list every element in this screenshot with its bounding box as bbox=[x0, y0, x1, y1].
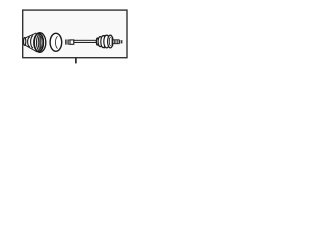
outer boot rib 3 bbox=[104, 35, 110, 48]
inner boot bellows arc 1 bbox=[28, 37, 30, 47]
axle shaft bbox=[74, 40, 96, 42]
inner boot small end clamp ring bbox=[24, 38, 26, 46]
stub tip groove bbox=[120, 40, 122, 43]
stub tip bbox=[119, 40, 122, 43]
background bbox=[0, 0, 150, 73]
callout tick below box bbox=[75, 57, 77, 63]
stub spline lines bbox=[115, 40, 118, 44]
outer boot rib 2 bbox=[101, 36, 106, 48]
outer boot top profile line bbox=[98, 35, 106, 38]
outer boot small clamp ring bbox=[96, 38, 98, 45]
outer joint body inner detail arc bbox=[109, 37, 110, 46]
joint housing inner left arc bbox=[56, 36, 58, 48]
inner boot bellows arc 2 bbox=[31, 36, 34, 48]
joint housing outer ellipse bbox=[50, 33, 62, 51]
spline block A white lines bbox=[65, 40, 67, 45]
clamp block B bbox=[70, 40, 74, 44]
inner joint boot large end nested ellipses bbox=[34, 33, 46, 53]
outer boot rib 1 bbox=[98, 37, 102, 47]
outer boot bottom profile line bbox=[98, 45, 106, 48]
output stub shaft bbox=[113, 40, 119, 44]
part thumbnail border box bbox=[23, 10, 127, 58]
outer joint face edge bbox=[111, 37, 113, 46]
inner boot bottom profile line bbox=[25, 45, 37, 52]
spacer ring bbox=[68, 40, 70, 44]
outer joint body bbox=[108, 35, 113, 48]
inner boot top profile line bbox=[25, 33, 36, 38]
spline block A bbox=[65, 40, 68, 45]
